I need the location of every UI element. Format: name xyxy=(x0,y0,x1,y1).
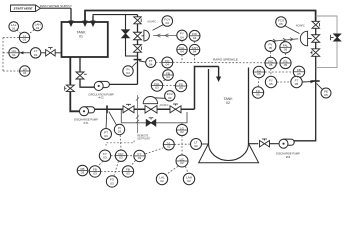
svg-text:03: 03 xyxy=(103,156,107,160)
svg-text:MAIN WATER SUPPLY: MAIN WATER SUPPLY xyxy=(40,4,72,8)
svg-text:03: 03 xyxy=(155,86,159,90)
svg-text:03: 03 xyxy=(126,171,130,175)
svg-text:03: 03 xyxy=(110,181,114,185)
svg-text:03: 03 xyxy=(168,96,172,100)
svg-text:05: 05 xyxy=(279,22,283,26)
svg-text:04: 04 xyxy=(193,36,197,40)
svg-text:SETPOINT: SETPOINT xyxy=(137,137,150,141)
svg-text:04: 04 xyxy=(166,63,170,67)
svg-text:RAPID SPRINKLE: RAPID SPRINKLE xyxy=(213,58,238,62)
svg-text:05: 05 xyxy=(284,47,288,51)
svg-text:START HERE: START HERE xyxy=(14,7,34,11)
svg-text:03: 03 xyxy=(81,171,85,175)
svg-text:01: 01 xyxy=(23,71,27,75)
svg-text:01: 01 xyxy=(79,35,83,39)
svg-text:01: 01 xyxy=(23,38,27,42)
svg-text:AO/AFC: AO/AFC xyxy=(147,20,156,23)
svg-text:# 01: # 01 xyxy=(83,121,89,125)
svg-text:03: 03 xyxy=(138,156,142,160)
svg-text:05: 05 xyxy=(269,63,273,67)
svg-text:01: 01 xyxy=(36,26,40,30)
svg-text:02: 02 xyxy=(194,144,198,148)
svg-text:02: 02 xyxy=(180,161,184,165)
svg-text:05: 05 xyxy=(284,63,288,67)
svg-text:04: 04 xyxy=(193,50,197,54)
svg-text:05: 05 xyxy=(257,72,261,76)
svg-text:01: 01 xyxy=(12,27,16,31)
svg-text:02: 02 xyxy=(167,145,171,149)
svg-text:02: 02 xyxy=(187,179,191,183)
svg-text:AO/AFC: AO/AFC xyxy=(160,104,169,107)
svg-text:03: 03 xyxy=(93,171,97,175)
svg-text:05: 05 xyxy=(324,93,328,97)
svg-text:04: 04 xyxy=(180,50,184,54)
svg-text:05: 05 xyxy=(269,82,273,86)
svg-text:04: 04 xyxy=(166,21,170,25)
svg-text:01: 01 xyxy=(12,53,16,57)
svg-text:05: 05 xyxy=(256,93,260,97)
svg-text:01: 01 xyxy=(34,53,38,57)
svg-text:# 02: # 02 xyxy=(98,96,104,100)
svg-text:04: 04 xyxy=(126,71,130,75)
svg-text:05: 05 xyxy=(269,46,273,50)
svg-text:04: 04 xyxy=(180,35,184,39)
svg-text:AO/AFC: AO/AFC xyxy=(296,25,305,28)
svg-text:04: 04 xyxy=(166,75,170,79)
svg-text:04: 04 xyxy=(149,63,153,67)
svg-text:02: 02 xyxy=(226,101,230,105)
svg-text:#03: #03 xyxy=(286,155,291,159)
svg-text:02: 02 xyxy=(180,130,184,134)
svg-text:05: 05 xyxy=(295,82,299,86)
svg-text:03: 03 xyxy=(119,156,123,160)
svg-text:03: 03 xyxy=(104,134,108,138)
svg-text:03: 03 xyxy=(118,130,122,134)
svg-text:03: 03 xyxy=(179,86,183,90)
svg-text:02: 02 xyxy=(160,179,164,183)
svg-text:05: 05 xyxy=(297,72,301,76)
